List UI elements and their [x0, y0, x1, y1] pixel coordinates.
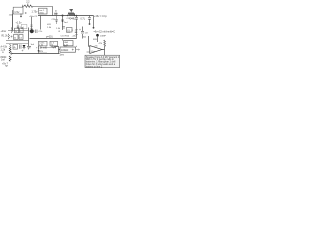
- resistor R5 vertical: [10, 44, 12, 49]
- label A 4.5k: [1, 46, 8, 49]
- diode D2 on x62: [62, 20, 64, 22]
- U2 label: [91, 51, 96, 53]
- label R18: [94, 46, 98, 48]
- C8 label: [85, 33, 89, 35]
- node plus mark: [22, 5, 24, 6]
- node arrow: [10, 53, 12, 55]
- label 1.75v: [32, 11, 39, 14]
- node dot x94: [93, 27, 95, 29]
- capacitor C14: [27, 46, 31, 49]
- svg-text:+H1.: +H1.: [66, 32, 71, 34]
- C3 label: [20, 27, 24, 29]
- plus mark: [11, 36, 13, 38]
- box comp A4: [14, 35, 19, 40]
- mid bus wire y38.5: [30, 38, 77, 40]
- wire cap drop C9: [89, 16, 91, 24]
- svg-text:+15v = C=p: +15v = C=p: [94, 15, 107, 18]
- U2 output wire: [102, 50, 105, 56]
- svg-text:0.7L: 0.7L: [81, 18, 86, 20]
- potentiometer RV1: [68, 13, 75, 16]
- R21 label: [1, 49, 6, 54]
- resistor R3 vertical: [11, 28, 13, 33]
- svg-text:C25 0.1: C25 0.1: [67, 18, 75, 20]
- label p=301: [46, 36, 53, 39]
- title text line2: [86, 58, 115, 61]
- F1 label: [61, 49, 68, 52]
- label mv: [60, 55, 65, 57]
- svg-text:JUMP: JUMP: [100, 35, 106, 37]
- long bottom wire: [12, 53, 60, 55]
- junction dots at pot: [67, 15, 68, 16]
- svg-text:C9+: C9+: [39, 31, 44, 33]
- left rail wire: [12, 14, 14, 31]
- wire mid lower: [40, 47, 56, 49]
- wire row A: [8, 30, 29, 32]
- plus tick: [22, 50, 24, 52]
- label +5v: [2, 63, 9, 66]
- node dot right: [96, 34, 99, 37]
- plus tick right of B1: [25, 12, 27, 14]
- M1 label: [39, 43, 44, 47]
- capacitor C2 label: [9, 14, 13, 16]
- title text line1: [86, 56, 120, 59]
- capacitor C8 plates: [81, 31, 84, 33]
- svg-text:C13 R14: C13 R14: [61, 36, 70, 38]
- RV1 wiper arrow: [69, 10, 73, 13]
- label +15v line: [94, 15, 107, 18]
- wire dot down: [97, 35, 99, 42]
- label 1mf: [64, 22, 68, 24]
- oscillator box U1: [39, 8, 48, 14]
- label +1.5v: [16, 21, 23, 24]
- svg-text:+15v C2: +15v C2: [29, 16, 38, 18]
- battery B1 label 1.5v: [14, 10, 20, 14]
- svg-text:=9v+C2 mfd+mfd=C: =9v+C2 mfd+mfd=C: [94, 30, 116, 33]
- svg-text:1mf: 1mf: [31, 44, 35, 46]
- svg-text:4k: 4k: [14, 47, 16, 49]
- svg-text:+5v ?: +5v ?: [2, 63, 9, 66]
- RV1 label: [70, 18, 76, 20]
- junction dot bus x76: [76, 15, 78, 17]
- svg-text:+1.5v: +1.5v: [16, 21, 23, 24]
- transistor Q1 blob: [30, 29, 34, 33]
- vertical wire x40: [40, 16, 42, 30]
- diode D1: [56, 16, 58, 25]
- wire riser to box: [55, 47, 61, 54]
- label +H1: [66, 32, 71, 34]
- R22 label: [1, 56, 7, 59]
- vertical wire x32: [31, 17, 33, 30]
- box comp N1: [64, 41, 74, 46]
- wire row C: [6, 43, 29, 45]
- battery module B1 box: [13, 7, 23, 14]
- resistor R20 zigzag: [104, 40, 106, 47]
- plus inside F1: [72, 49, 74, 51]
- Q1 leads: [29, 29, 35, 33]
- svg-text:R1 2k: R1 2k: [2, 36, 9, 38]
- label 1.5k: [47, 27, 52, 29]
- junction dot M1 bottom: [38, 50, 40, 52]
- svg-text:battery to line 2: battery to line 2: [86, 65, 103, 68]
- svg-text:1mf: 1mf: [64, 22, 68, 24]
- arrow down: [20, 14, 22, 18]
- ticks on x76 wire: [75, 29, 77, 34]
- label C24: [52, 19, 57, 21]
- meter box F1: [60, 47, 76, 52]
- N1 label row2: [64, 45, 69, 47]
- wire R1 right to corner: [33, 7, 53, 16]
- resistor R4 vertical: [8, 34, 10, 39]
- label 1mv underline: [38, 52, 47, 54]
- capacitor C9 plates: [88, 18, 91, 20]
- junction dot bus x62: [62, 15, 64, 17]
- top bus wire: [38, 15, 94, 17]
- label +13v: [72, 36, 78, 38]
- svg-text:1.3k: 1.3k: [39, 45, 43, 47]
- box comp M1: [39, 41, 48, 46]
- node dot: [89, 23, 91, 25]
- title text line4: [86, 63, 116, 66]
- title block border: [85, 55, 120, 67]
- label H11: [47, 24, 52, 26]
- title text line3: [86, 61, 116, 64]
- ground mark: [5, 65, 8, 68]
- R20 value: [99, 43, 103, 45]
- wire bus to N1: [62, 39, 64, 41]
- box comp A5: [19, 35, 23, 40]
- box comp A3: [20, 28, 24, 33]
- right vertical x88.5: [88, 36, 90, 47]
- op-amp U2 triangle: [90, 46, 102, 54]
- svg-text:+4mv: +4mv: [1, 31, 8, 33]
- svg-text:+ 3.3k mfd: + 3.3k mfd: [36, 47, 48, 49]
- svg-text:1k: 1k: [15, 31, 17, 33]
- wire N1 to F1: [76, 46, 78, 47]
- box comp K1: [67, 28, 73, 33]
- plus tick mid row: [71, 29, 73, 31]
- N1 label row1: [64, 42, 68, 44]
- svg-text:1mf: 1mf: [9, 14, 13, 16]
- resistor R1 2.2k label: [26, 1, 30, 6]
- title text line5: [86, 65, 103, 68]
- svg-text:1.75v: 1.75v: [32, 11, 39, 14]
- capacitor C10: [62, 27, 65, 29]
- resistor R15: [52, 46, 57, 48]
- wire x94 drop: [93, 16, 95, 28]
- crystal Y1: [54, 13, 57, 16]
- label R1 2k: [2, 36, 9, 38]
- label ohm left: [59, 31, 61, 33]
- svg-text:p=301: p=301: [46, 36, 53, 39]
- capacitor C25 plates: [75, 18, 78, 20]
- ticks on x31 wire: [30, 25, 32, 28]
- svg-text:100kΩ: 100kΩ: [61, 49, 68, 52]
- svg-text:820Ω: 820Ω: [1, 56, 7, 59]
- label R20: [93, 39, 98, 41]
- capacitor C11: [20, 45, 22, 49]
- label ohms: [83, 37, 86, 39]
- label C2 top: [29, 16, 38, 18]
- left cluster row A label: [1, 31, 8, 33]
- wire x76 down: [76, 16, 78, 39]
- svg-text:1mf: 1mf: [1, 59, 5, 61]
- svg-text:2k: 2k: [14, 37, 16, 39]
- label 10k above F1: [64, 45, 68, 47]
- capacitor C3: [17, 25, 19, 30]
- label 1mv: [39, 51, 44, 53]
- wire M1 to bottom: [38, 46, 40, 54]
- wire x82 drop: [82, 27, 84, 39]
- R20 lead down: [104, 47, 106, 50]
- svg-text:3Ω: 3Ω: [83, 37, 86, 39]
- label jumper: [100, 35, 106, 37]
- diode D3: [23, 45, 26, 48]
- label C13: [61, 36, 70, 38]
- resistor R21 vertical: [9, 48, 11, 54]
- label 3.3k mfd: [36, 47, 48, 49]
- wire battery left lead: [12, 11, 15, 15]
- box comp M2: [50, 41, 58, 46]
- M2 label: [51, 43, 55, 47]
- svg-text:1.5v: 1.5v: [14, 10, 20, 14]
- Y1 plus: [55, 10, 56, 11]
- tiny box near C3: [21, 24, 27, 28]
- label 1.5k right: [56, 28, 61, 30]
- label row right long: [94, 30, 116, 33]
- label 0.7L: [81, 18, 86, 20]
- U1 text: [39, 10, 45, 14]
- resistor R22 vertical: [9, 56, 11, 62]
- D3 bar: [23, 48, 26, 50]
- box comp A6: [13, 44, 18, 49]
- R22 label2: [1, 59, 5, 61]
- F1 arrow: [76, 49, 80, 51]
- diode D1 drop: [55, 15, 57, 27]
- U2 input wires: [87, 47, 91, 53]
- C25 label: [67, 18, 75, 20]
- wire x62 down: [62, 16, 64, 31]
- plus tick mid row2: [79, 29, 81, 31]
- left vertical x28.8: [28, 28, 30, 47]
- box comp A2: [15, 28, 19, 33]
- label C9: [39, 31, 44, 33]
- svg-text:1.5m: 1.5m: [91, 51, 96, 53]
- wire battery top to R1: [23, 6, 25, 7]
- comps right of Q1: [36, 30, 38, 34]
- comp on x76: [75, 31, 77, 33]
- wire row B: [6, 40, 29, 42]
- resistor R1 zigzag: [24, 5, 33, 7]
